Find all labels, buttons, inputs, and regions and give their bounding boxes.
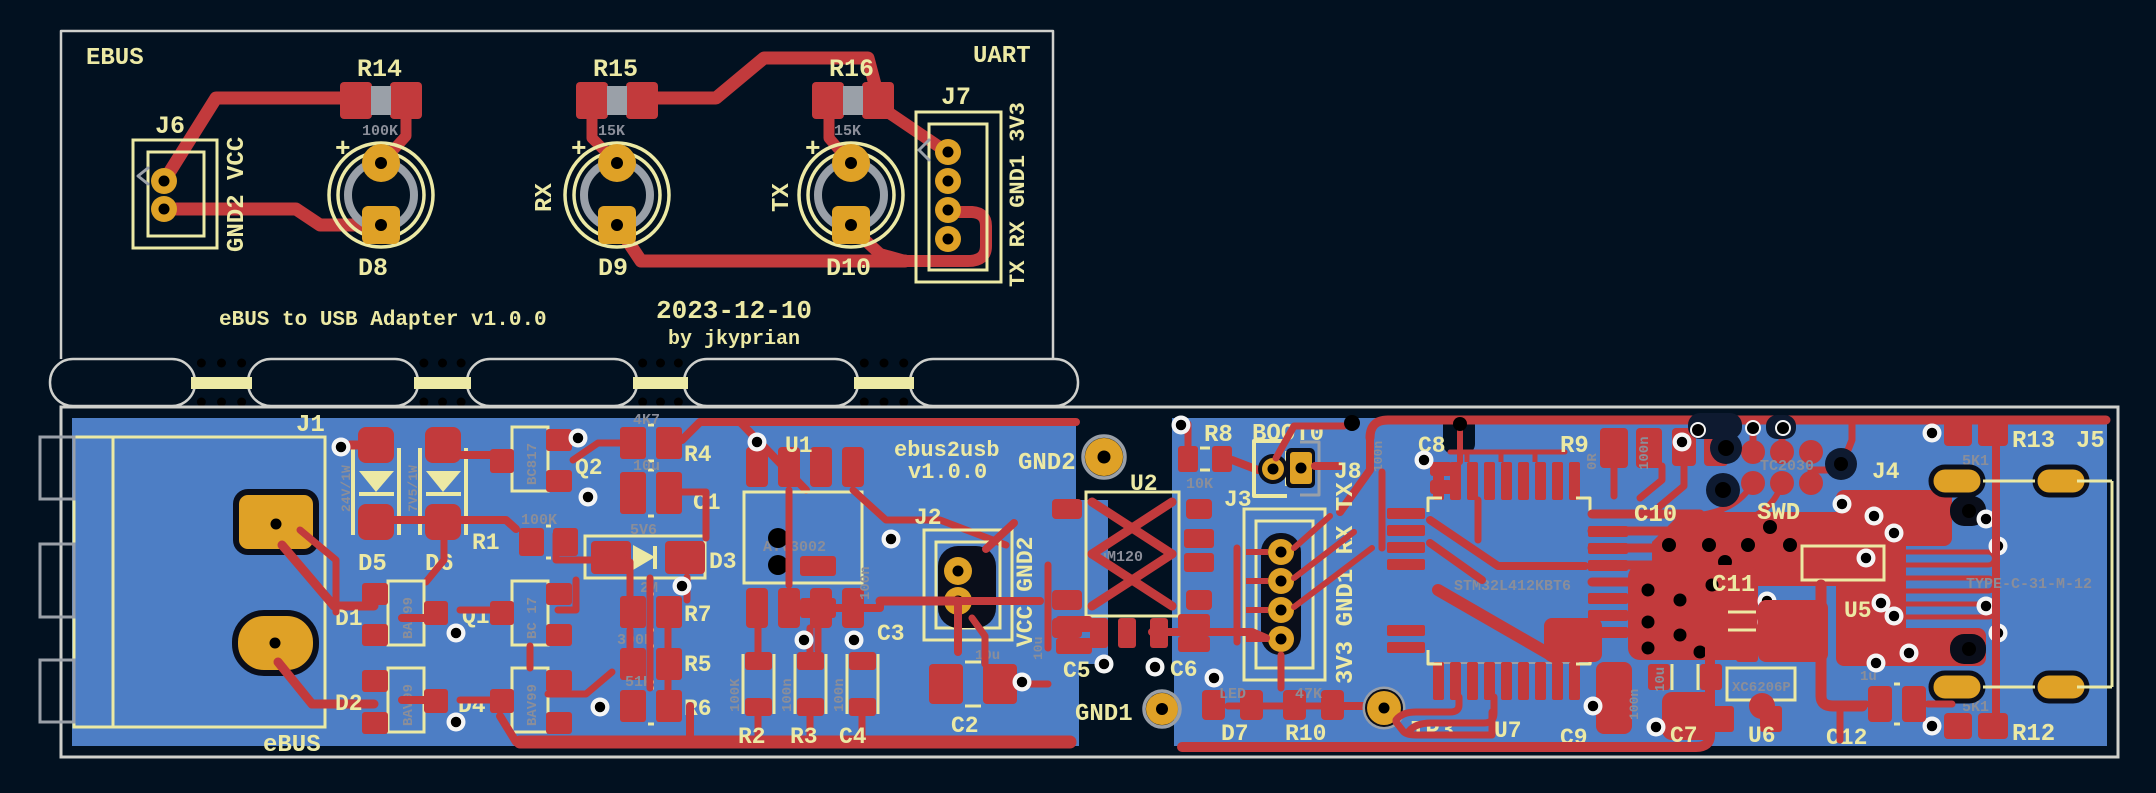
svg-text:TC2030: TC2030	[1760, 458, 1814, 475]
svg-text:J7: J7	[941, 83, 971, 112]
svg-text:by jkyprian: by jkyprian	[668, 328, 800, 351]
svg-text:R15: R15	[593, 55, 638, 84]
svg-text:10u: 10u	[1653, 667, 1669, 692]
svg-text:2023-12-10: 2023-12-10	[656, 296, 812, 326]
svg-text:VCC GND2: VCC GND2	[1013, 537, 1039, 647]
svg-text:J1: J1	[296, 412, 325, 439]
svg-text:10u: 10u	[633, 458, 660, 475]
svg-text:J4: J4	[1872, 459, 1900, 485]
svg-text:C5: C5	[1063, 658, 1091, 684]
svg-text:U2: U2	[1130, 471, 1158, 497]
svg-text:100n: 100n	[780, 678, 796, 712]
svg-text:BAV99: BAV99	[401, 684, 417, 726]
svg-text:1u: 1u	[1860, 669, 1877, 685]
svg-text:4K7: 4K7	[633, 412, 660, 429]
svg-text:C4: C4	[839, 724, 867, 750]
svg-text:C2: C2	[951, 713, 979, 739]
svg-text:EBUS: EBUS	[86, 45, 144, 72]
svg-text:U1: U1	[785, 433, 813, 459]
svg-text:3V3 GND1 RX TX: 3V3 GND1 RX TX	[1333, 482, 1360, 684]
svg-text:C10: C10	[1634, 502, 1677, 529]
svg-text:v1.0.0: v1.0.0	[908, 460, 987, 485]
svg-text:UART: UART	[973, 43, 1031, 70]
svg-text:GND2 VCC: GND2 VCC	[224, 137, 251, 252]
svg-text:D9: D9	[598, 254, 628, 283]
svg-text:15K: 15K	[834, 123, 861, 140]
svg-text:R5: R5	[684, 652, 712, 678]
svg-text:TX RX GND1 3V3: TX RX GND1 3V3	[1006, 102, 1031, 287]
svg-text:100n: 100n	[858, 566, 874, 600]
svg-text:U5: U5	[1844, 598, 1872, 624]
svg-text:R13: R13	[2012, 428, 2055, 455]
svg-text:R7: R7	[684, 602, 712, 628]
svg-text:0R: 0R	[1585, 453, 1601, 470]
svg-text:D5: D5	[358, 551, 387, 578]
svg-text:D8: D8	[358, 254, 388, 283]
svg-text:100K: 100K	[362, 123, 398, 140]
svg-text:15K: 15K	[598, 123, 625, 140]
svg-text:+: +	[805, 134, 821, 164]
svg-text:24V/1W: 24V/1W	[339, 465, 354, 512]
svg-text:100K: 100K	[728, 678, 744, 712]
svg-text:STM32L412KBT6: STM32L412KBT6	[1454, 578, 1571, 595]
svg-text:U7: U7	[1494, 718, 1522, 744]
svg-text:10K: 10K	[1186, 476, 1213, 493]
svg-text:TYPE-C-31-M-12: TYPE-C-31-M-12	[1966, 576, 2092, 593]
svg-text:7V5/1W: 7V5/1W	[406, 465, 421, 512]
svg-text:J3: J3	[1224, 487, 1252, 513]
svg-text:D3: D3	[709, 549, 737, 575]
svg-text:47K: 47K	[1295, 686, 1322, 703]
svg-text:SWD: SWD	[1757, 500, 1800, 527]
svg-text:eBUS: eBUS	[263, 732, 321, 759]
svg-text:10u: 10u	[1031, 637, 1046, 660]
svg-text:J5: J5	[2076, 428, 2105, 455]
svg-text:100n: 100n	[832, 678, 848, 712]
svg-text:eBUS to USB Adapter v1.0.0: eBUS to USB Adapter v1.0.0	[219, 309, 547, 332]
svg-text:5V6: 5V6	[630, 522, 657, 539]
svg-text:100K: 100K	[521, 512, 557, 529]
svg-text:C12: C12	[1826, 725, 1867, 751]
svg-text:C3: C3	[877, 621, 905, 647]
svg-text:BC817: BC817	[525, 443, 541, 485]
svg-text:TX: TX	[769, 183, 796, 212]
svg-text:+: +	[571, 134, 587, 164]
svg-text:J6: J6	[155, 112, 185, 141]
svg-text:J2: J2	[914, 505, 942, 531]
svg-text:C11: C11	[1712, 572, 1755, 599]
svg-text:R4: R4	[684, 442, 712, 468]
svg-text:R1: R1	[472, 530, 500, 556]
svg-text:LED: LED	[1219, 686, 1246, 703]
svg-text:D2: D2	[335, 691, 363, 717]
svg-text:RX: RX	[532, 183, 559, 212]
svg-text:100n: 100n	[1627, 689, 1642, 720]
svg-text:R2: R2	[738, 724, 766, 750]
svg-text:GND1: GND1	[1075, 701, 1133, 728]
svg-text:BAV99: BAV99	[525, 684, 541, 726]
svg-text:BC 17: BC 17	[525, 597, 541, 639]
svg-text:100n: 100n	[1637, 436, 1653, 470]
svg-text:GND2: GND2	[1018, 450, 1076, 477]
svg-text:+: +	[335, 134, 351, 164]
svg-text:U6: U6	[1748, 723, 1776, 749]
svg-text:C6: C6	[1170, 657, 1198, 683]
svg-text:D10: D10	[826, 254, 871, 283]
svg-text:R3: R3	[790, 724, 818, 750]
svg-text:R8: R8	[1204, 422, 1233, 449]
svg-text:R14: R14	[357, 55, 402, 84]
svg-text:R12: R12	[2012, 721, 2055, 748]
svg-text:R16: R16	[829, 55, 874, 84]
